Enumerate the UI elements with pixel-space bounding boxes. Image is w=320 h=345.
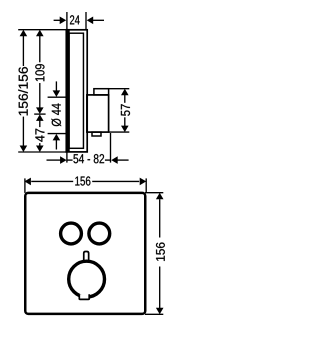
label 156/156 bbox=[18, 67, 28, 115]
bottom tab of knob bbox=[79, 294, 89, 299]
label 24 bbox=[70, 15, 80, 24]
dim 156 top: left arrow bbox=[24, 178, 31, 186]
dim 47: bottom arrow down bbox=[36, 146, 44, 153]
wall plate solid left wall bbox=[66, 29, 70, 152]
dim 24: left tail and arrow bbox=[54, 19, 61, 21]
thermostat knob big circle bbox=[69, 261, 105, 297]
label 156 right bbox=[156, 243, 165, 261]
label 156 top bbox=[75, 176, 90, 185]
center tick bbox=[34, 113, 45, 115]
dim 156 right: bottom extension line bbox=[145, 313, 163, 315]
wall plate outer rectangle (side view) bbox=[66, 30, 87, 152]
dim 156/156: bottom arrow down bbox=[20, 146, 28, 153]
technical dimension drawing: thermostat side view (top) and front view (bottom) bbox=[0, 0, 190, 345]
front view square plate bbox=[25, 193, 145, 314]
dim 57: top extension line bbox=[109, 88, 130, 90]
dim 109/47 line: top arrow up bbox=[36, 30, 44, 37]
dim 54-82: right extension line bbox=[110, 133, 112, 163]
dim 109: bottom arrow down bbox=[36, 107, 44, 114]
knob stem on top bbox=[84, 252, 89, 267]
dim 47: top arrow up bbox=[36, 114, 44, 121]
valve body protrusion bbox=[87, 95, 109, 132]
label 109 bbox=[35, 64, 44, 81]
label O 44 bbox=[51, 103, 61, 126]
dim 54-82: right arrow pointing left and tail bbox=[105, 159, 111, 161]
label 54 - 82 bbox=[73, 154, 104, 163]
dim 156 top: right extension line bbox=[145, 178, 147, 193]
dim 24: right extension line bbox=[85, 12, 87, 30]
dim 156/156 line: top arrow up bbox=[20, 30, 28, 37]
label 47 bbox=[35, 129, 44, 142]
label 57 bbox=[121, 104, 130, 115]
dim 156 right: top arrow up bbox=[156, 193, 164, 200]
wall plate inner rectangle bbox=[69, 33, 83, 148]
dim 24: right arrow and tail bbox=[87, 17, 94, 25]
dim 156 top: left extension line bbox=[24, 178, 26, 193]
dim 156 right: bottom arrow down bbox=[156, 308, 164, 315]
dim O44: top tail arrow pointing down bbox=[55, 81, 57, 91]
top extension line to left dims bbox=[18, 29, 66, 31]
dim O44: bottom tick bbox=[48, 133, 67, 135]
dim 156 top: right arrow bbox=[140, 178, 147, 186]
valve cap on top of body bbox=[94, 89, 109, 95]
dim 24: left extension line bbox=[66, 12, 68, 30]
dim 57: line with arrows bbox=[121, 89, 129, 96]
left select button circle bbox=[61, 223, 82, 244]
right select button circle bbox=[89, 223, 110, 244]
dim O44: bottom tail arrow pointing up bbox=[53, 134, 61, 141]
dim 54-82: left tail arrow pointing right bbox=[47, 159, 61, 161]
bottom extension line to left dims bbox=[18, 151, 66, 153]
dim 54-82: left extension line bbox=[66, 152, 68, 163]
dim 156 right: top extension line bbox=[145, 192, 163, 194]
dim 57: bottom extension line bbox=[109, 131, 130, 133]
small cup below body bbox=[92, 132, 101, 136]
dim O44: top tick bbox=[48, 96, 67, 98]
